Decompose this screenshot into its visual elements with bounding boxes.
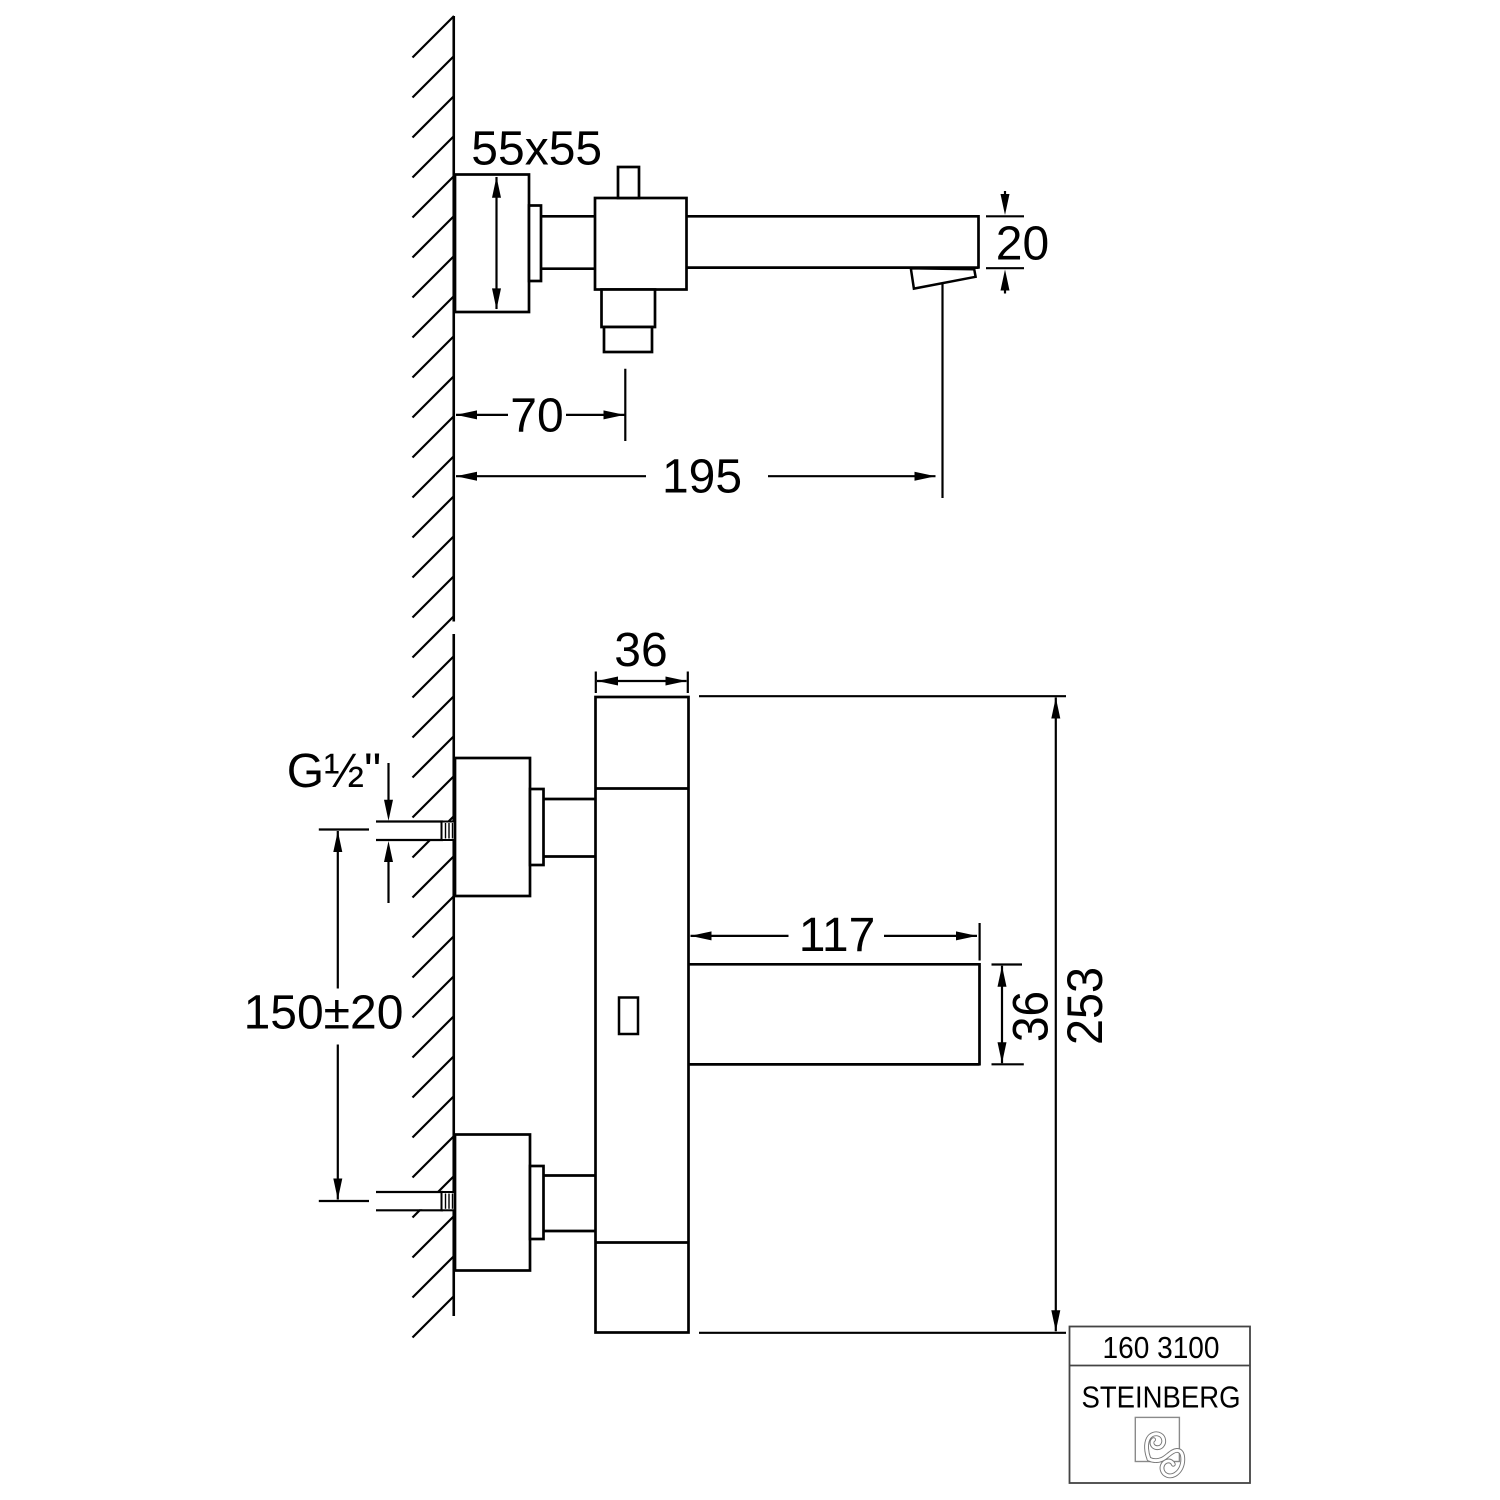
svg-text:55x55: 55x55 [471, 123, 602, 176]
svg-text:36: 36 [1003, 991, 1059, 1042]
svg-text:150±20: 150±20 [244, 987, 404, 1040]
svg-text:117: 117 [799, 909, 876, 962]
svg-text:G½": G½" [287, 745, 381, 798]
svg-text:70: 70 [510, 390, 563, 443]
svg-text:253: 253 [1057, 967, 1113, 1045]
svg-text:195: 195 [662, 451, 742, 504]
svg-text:20: 20 [996, 218, 1049, 271]
svg-text:160 3100: 160 3100 [1103, 1330, 1220, 1365]
svg-text:36: 36 [614, 624, 667, 677]
svg-text:STEINBERG: STEINBERG [1082, 1380, 1241, 1415]
